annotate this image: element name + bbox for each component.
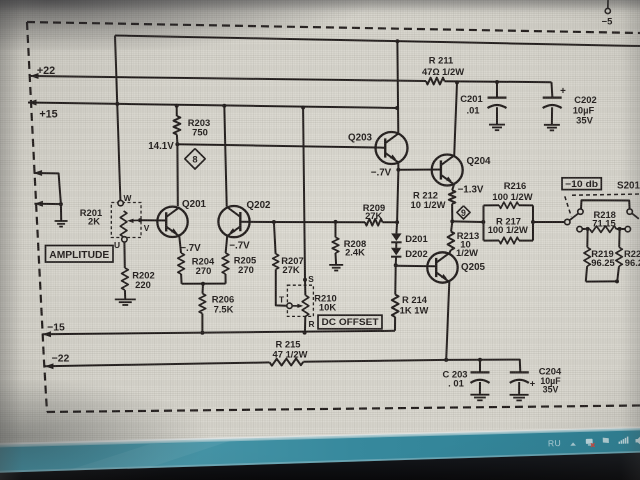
svg-text:14.1V: 14.1V <box>148 141 174 152</box>
flag diamond 9 <box>457 206 470 219</box>
wire diode node to Q205 base <box>396 265 437 267</box>
svg-text:10K: 10K <box>319 302 336 313</box>
svg-text:DC OFFSET: DC OFFSET <box>322 316 379 327</box>
resistor R203 750 <box>174 104 211 145</box>
resistor R209 27K wire <box>274 202 397 226</box>
potentiometer R201 2K dashed box with W V U terminals <box>80 193 150 250</box>
wire +15 rail down to R210 S terminal <box>301 106 305 280</box>
transistor Q203 <box>348 132 407 164</box>
resistor R213 10 1/2W <box>448 221 480 258</box>
wire Q205 emitter down to output node <box>446 282 449 360</box>
svg-text:10 1/2W: 10 1/2W <box>411 199 446 210</box>
svg-text:−22: −22 <box>52 354 70 365</box>
dashed assembly border - left edge <box>27 22 47 412</box>
svg-text:R 211: R 211 <box>429 55 454 66</box>
node +22 rail <box>30 65 552 82</box>
transistor Q202 (mirrored) <box>218 200 271 237</box>
svg-text:96.25: 96.25 <box>625 257 640 268</box>
svg-text:27K: 27K <box>282 264 299 275</box>
ground symbol below R202 <box>115 299 136 305</box>
resistor R215 47 1/2W <box>270 339 308 366</box>
svg-text:−5: −5 <box>602 16 613 27</box>
svg-text:270: 270 <box>238 264 254 275</box>
resistors R216 R217 parallel loop <box>481 180 535 244</box>
wire joining R204 R205 bottoms <box>182 282 226 286</box>
ground symbol below R208 <box>329 265 343 271</box>
svg-text:AMPLITUDE: AMPLITUDE <box>49 250 109 261</box>
resistor R219 96.25 <box>584 229 615 282</box>
node +15 inner top rail <box>115 36 640 47</box>
svg-text:750: 750 <box>192 127 208 138</box>
svg-text:−1.3V: −1.3V <box>458 185 484 196</box>
resistor R208 2.4K <box>332 220 366 265</box>
transistor Q205 <box>427 252 485 282</box>
svg-text:−.7V: −.7V <box>371 167 392 178</box>
svg-text:R: R <box>308 319 314 329</box>
window bottom white band <box>0 427 640 446</box>
svg-text:Q201: Q201 <box>182 199 207 210</box>
wire R215 to output node <box>303 358 520 372</box>
svg-text:RU: RU <box>548 438 561 448</box>
wire attenuator output to switch <box>533 221 565 223</box>
svg-text:+: + <box>530 378 536 389</box>
transistor Q201 <box>157 199 206 237</box>
wire Q202 base node <box>240 220 276 224</box>
resistor R202 220 <box>122 242 155 299</box>
svg-text:C202: C202 <box>574 94 596 105</box>
label DC OFFSET box <box>318 315 382 329</box>
svg-text:35V: 35V <box>543 385 559 395</box>
node -.7V Q202 emitter, resistor R205 270 <box>222 236 256 284</box>
node output wire to attenuator <box>450 219 483 223</box>
wire Q204 collector to +22 rail <box>454 80 459 155</box>
label -10 db box <box>562 178 601 190</box>
chassis ground arrows at left <box>34 170 63 221</box>
diode D201 <box>391 220 428 244</box>
node diode output junction <box>394 263 398 267</box>
svg-text:S201: S201 <box>617 181 640 192</box>
svg-text:Q205: Q205 <box>461 262 486 273</box>
svg-text:V: V <box>144 223 150 233</box>
wire inner rail corner down to R201 W terminal <box>115 36 120 201</box>
svg-text:−.7V: −.7V <box>229 241 250 252</box>
wire Q201 collector up to 14.1V node <box>176 144 178 206</box>
svg-text:S: S <box>308 274 314 284</box>
svg-text:220: 220 <box>135 279 151 290</box>
capacitor C203 .01 <box>442 360 489 401</box>
taskbar light streak <box>60 441 230 474</box>
svg-text:Q202: Q202 <box>247 200 272 211</box>
resistor R214 1K 1W <box>392 265 429 331</box>
svg-text:47Ω 1/2W: 47Ω 1/2W <box>422 66 464 77</box>
taskbar tray icons <box>548 436 640 449</box>
resistor R218 71.15 <box>588 209 620 232</box>
node 14.1V - wire R203 to Q203 base <box>148 141 385 152</box>
resistor R211 47ohm 1/2W <box>422 55 464 85</box>
wire Q203 emitter to Q204 base <box>398 169 441 171</box>
svg-text:+22: +22 <box>37 65 55 77</box>
resistor R220 96.25 <box>616 229 640 282</box>
wire Q202 collector to +15 rail <box>222 104 226 207</box>
svg-text:9: 9 <box>461 208 466 218</box>
capacitor C204 10uF 35V <box>510 366 562 401</box>
svg-text:100 1/2W: 100 1/2W <box>492 191 532 202</box>
node -1.3V label <box>458 185 484 196</box>
taskbar <box>0 429 640 472</box>
svg-text:+15: +15 <box>39 109 57 121</box>
svg-text:1K 1W: 1K 1W <box>400 305 429 316</box>
svg-text:W: W <box>124 193 132 203</box>
svg-text:−.7V: −.7V <box>180 243 201 254</box>
resistor R207 27K <box>273 222 304 306</box>
terminal -5 at top right <box>602 0 613 27</box>
svg-text:T: T <box>279 295 285 305</box>
transistor Q204 <box>432 155 491 186</box>
svg-text:47 1/2W: 47 1/2W <box>273 349 308 360</box>
svg-text:27K: 27K <box>365 210 382 221</box>
wire joining R219 R220 bottoms <box>586 279 619 283</box>
svg-text:−15: −15 <box>47 323 65 334</box>
svg-text:96.25: 96.25 <box>591 257 614 268</box>
svg-text:D202: D202 <box>405 248 427 259</box>
svg-text:71.15: 71.15 <box>592 217 615 228</box>
svg-text:C201: C201 <box>460 93 482 104</box>
ground symbol left <box>55 221 68 227</box>
svg-text:Q203: Q203 <box>348 133 373 144</box>
svg-text:D201: D201 <box>405 233 427 244</box>
dashed assembly border - bottom edge <box>47 406 640 413</box>
svg-text:1/2W: 1/2W <box>456 247 478 258</box>
capacitor C201 .01 <box>460 80 506 130</box>
svg-text:U: U <box>114 240 120 250</box>
svg-text:−10 db: −10 db <box>565 178 598 189</box>
node +15 rail <box>28 100 397 121</box>
wire Q203 emitter down to diode node <box>397 170 398 222</box>
resistor R212 10 1/2W <box>411 184 456 221</box>
capacitor C202 10uF 35V <box>543 82 597 130</box>
node -.7V Q203 emitter <box>371 163 401 179</box>
node -15 rail <box>43 323 396 338</box>
svg-text:R 214: R 214 <box>402 294 428 305</box>
svg-text:7.5K: 7.5K <box>214 304 234 315</box>
node -.7V Q201 emitter, resistor R204 270 <box>178 236 215 284</box>
diode D202 <box>391 242 428 265</box>
svg-text:35V: 35V <box>576 115 593 126</box>
dashed assembly border - top edge <box>27 22 640 33</box>
svg-text:8: 8 <box>192 154 197 165</box>
potentiometer R210 10K dashed box with S T R terminals <box>279 274 337 333</box>
svg-text:+: + <box>560 86 566 97</box>
flag diamond 8 <box>185 149 205 169</box>
svg-text:Q204: Q204 <box>467 156 492 167</box>
node -22 rail <box>45 354 270 370</box>
svg-text:270: 270 <box>196 265 212 276</box>
svg-text:. 01: . 01 <box>448 378 464 389</box>
svg-text:R216: R216 <box>504 180 526 191</box>
switch S201 -10db <box>565 181 640 232</box>
resistor R206 7.5K <box>199 284 234 333</box>
bottom black bezel <box>0 453 640 480</box>
svg-text:2K: 2K <box>88 216 100 227</box>
wire Q203 collector to inner rail, +15 tee <box>395 39 399 133</box>
svg-text:100 1/2W: 100 1/2W <box>488 224 528 235</box>
svg-text:.01: .01 <box>466 105 479 116</box>
wire R201 wiper to Q201 base <box>140 219 166 221</box>
label AMPLITUDE box <box>46 246 114 263</box>
switch mechanical dashed linkage <box>565 194 640 217</box>
svg-text:2.4K: 2.4K <box>345 247 365 258</box>
